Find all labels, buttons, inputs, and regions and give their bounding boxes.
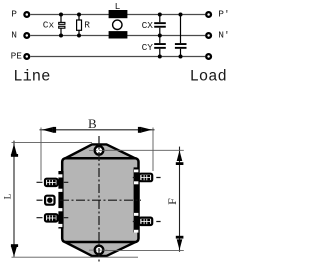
svg-text:N': N' — [218, 30, 229, 41]
svg-text:CY: CY — [142, 42, 154, 53]
terminal right top — [139, 174, 152, 182]
left terminal flange bar — [58, 171, 63, 229]
dimension B arrow left — [42, 127, 53, 132]
dimension L arrow up — [11, 144, 17, 154]
node CX top — [158, 13, 162, 17]
wire CX vertical — [159, 15, 161, 44]
node CY1 PE — [158, 55, 162, 59]
capacitor CY2 plates — [175, 43, 187, 45]
svg-text:B: B — [88, 116, 97, 131]
filter body — [62, 158, 138, 242]
svg-text:Line: Line — [13, 68, 50, 86]
terminal P (left) — [24, 12, 29, 17]
mounting hole top — [95, 146, 104, 155]
capacitor Cx plates — [59, 22, 65, 24]
dimension L line — [13, 141, 15, 257]
centerline terminal left bottom — [37, 217, 69, 219]
terminal N (left) — [24, 33, 29, 38]
wire PE line — [31, 56, 206, 58]
terminal PE (left) — [24, 54, 29, 59]
centerline horizontal through body — [60, 199, 141, 201]
dimension B extension right — [152, 128, 154, 172]
dimension F extension bottom — [104, 249, 184, 251]
dimension B arrow right — [141, 127, 152, 132]
resistor R — [77, 20, 82, 30]
centerline terminal right bottom — [133, 221, 161, 223]
node Cx top — [59, 13, 63, 17]
svg-text:P': P' — [218, 9, 229, 20]
dimension L arrow down — [11, 247, 17, 257]
dimension B extension left — [40, 128, 42, 181]
svg-text:L: L — [115, 1, 121, 12]
svg-text:N: N — [11, 30, 17, 41]
wire R vertical — [78, 15, 80, 36]
wire CY1 vertical — [159, 49, 161, 57]
terminal PE' (right) — [206, 54, 211, 59]
inductor choke core circle — [113, 20, 122, 29]
node CX bottom — [158, 34, 162, 38]
dimension L extension bottom — [12, 256, 139, 258]
dimension L extension top — [12, 142, 93, 144]
centerline terminal right top — [133, 177, 161, 179]
wire CY2 vertical — [180, 15, 182, 57]
capacitor CX plates — [154, 22, 166, 24]
centerline terminal left top — [37, 181, 69, 183]
svg-text:P: P — [11, 9, 17, 20]
terminal P' (right) — [206, 12, 211, 17]
dimension B line — [40, 129, 155, 131]
svg-text:Cx: Cx — [43, 19, 55, 30]
terminal left top — [45, 179, 58, 186]
node CY2 top — [179, 13, 183, 17]
capacitor CY1 plates — [154, 43, 166, 45]
dimension F line — [179, 147, 181, 252]
dimension F arrow down — [177, 239, 183, 250]
node Cx bottom — [59, 34, 63, 38]
svg-text:CX: CX — [142, 20, 154, 31]
svg-text:PE: PE — [11, 51, 23, 62]
inductor choke winding top — [109, 10, 128, 18]
wire P line — [31, 14, 206, 16]
terminal N' (right) — [206, 33, 211, 38]
centerline hole top horizontal — [89, 149, 109, 151]
node CY2 PE — [179, 55, 183, 59]
right terminal flange bar — [134, 167, 139, 232]
node R bottom — [77, 34, 81, 38]
mounting ear bottom — [63, 241, 138, 256]
wire Cx vertical — [60, 15, 62, 36]
svg-text:Load: Load — [190, 68, 227, 86]
centerline vertical — [98, 136, 100, 262]
dimension F arrow up — [177, 150, 183, 161]
svg-text:R: R — [84, 19, 90, 30]
inductor choke winding bottom — [109, 31, 128, 38]
dimension F extension top — [104, 149, 184, 151]
svg-text:L: L — [4, 193, 14, 199]
centerline hole bottom horizontal — [89, 249, 109, 251]
terminal left middle (PE stud) — [45, 196, 54, 205]
node R top — [77, 13, 81, 17]
centerline horizontal left stub — [37, 199, 43, 201]
terminal right bottom — [139, 218, 152, 225]
svg-text:F: F — [165, 198, 179, 205]
mounting ear top — [63, 144, 138, 159]
mounting hole bottom — [95, 246, 104, 255]
terminal left bottom — [45, 214, 58, 221]
wire N line — [31, 35, 206, 37]
